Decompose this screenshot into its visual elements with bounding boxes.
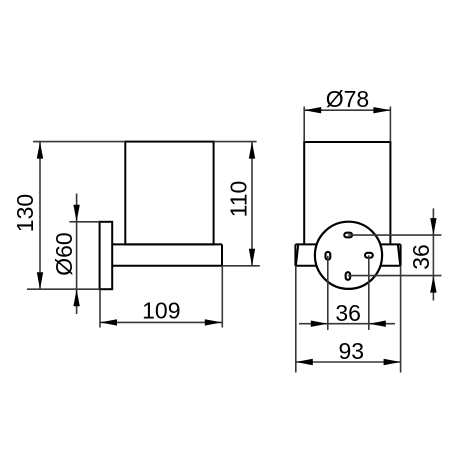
arrow 36 vertical bottom (up) — [430, 276, 436, 293]
arrow 36 vertical top (down) — [430, 218, 436, 235]
holder ring right outer edge — [400, 244, 402, 265]
holder arm top edge — [112, 243, 222, 245]
wall plate side view — [100, 222, 113, 289]
leader from left slot (36 horizontal left) — [327, 256, 329, 330]
holder ring left outer edge — [294, 244, 296, 265]
svg-text:36: 36 — [408, 244, 434, 270]
cup body front view top edge — [304, 141, 390, 143]
extension line 110 bottom — [222, 265, 260, 267]
extension line 93 left — [295, 266, 297, 373]
dimension line Ø60 — [76, 194, 78, 315]
arrow 36 horizontal right (points left) — [369, 321, 386, 327]
dimension line 110 — [251, 142, 253, 266]
arrow 93 left — [296, 359, 313, 365]
holder ring right chamfer — [398, 245, 400, 266]
mounting slot top — [344, 233, 352, 238]
arrow 109 left — [100, 319, 117, 325]
dimension line 36 horizontal — [299, 323, 395, 325]
leader from right slot (36 horizontal right) — [368, 255, 370, 330]
arrow Ø78 right — [373, 107, 390, 113]
svg-text:130: 130 — [12, 194, 38, 232]
arrow 110 bottom (down) — [249, 249, 255, 266]
arrow 36 horizontal left (points right) — [311, 321, 328, 327]
mounting slot bottom — [346, 272, 351, 280]
svg-text:Ø60: Ø60 — [51, 232, 77, 275]
mounting slot left — [326, 252, 331, 260]
extension line bottom of plate (130 and Ø60 dims) — [27, 288, 100, 290]
arrow Ø60 top (down onto plate top) — [73, 205, 79, 222]
dimension line 36 vertical — [432, 208, 434, 300]
leader from top slot (36 vertical top) — [348, 234, 441, 236]
arrow 130 bottom (down) — [37, 272, 43, 289]
extension line top of plate (Ø60 dim) — [69, 221, 99, 223]
extension line 93 right — [400, 266, 402, 373]
extension line Ø78 right — [389, 107, 391, 143]
wall plate front circle — [315, 222, 382, 289]
arrow 93 right — [384, 359, 401, 365]
arrow 130 top (up) — [37, 142, 43, 159]
arrow Ø60 bottom (up onto plate bottom) — [73, 289, 79, 306]
extension line top of cup (130 dim) — [33, 141, 125, 143]
svg-text:Ø78: Ø78 — [326, 86, 369, 112]
extension line 110 top — [214, 141, 257, 143]
dimension line 130 — [39, 142, 41, 290]
svg-text:36: 36 — [335, 300, 361, 326]
holder arm right edge — [221, 244, 223, 265]
extension line 109 left — [99, 289, 101, 327]
svg-text:93: 93 — [339, 338, 365, 364]
extension line Ø78 left — [303, 107, 305, 143]
svg-text:109: 109 — [142, 298, 180, 324]
arrow 109 right — [205, 319, 222, 325]
cup body side view — [125, 142, 213, 245]
holder ring left chamfer — [296, 245, 298, 266]
holder arm bottom edge — [112, 265, 222, 267]
arrow 110 top (up) — [249, 142, 255, 159]
holder ring bottom edge — [295, 265, 400, 267]
cup body front view left edge — [303, 141, 305, 244]
mounting slot right — [365, 253, 373, 258]
svg-text:110: 110 — [226, 181, 252, 218]
leader from bottom slot (36 vertical bottom) — [348, 275, 442, 277]
cup body front view right edge — [389, 141, 391, 244]
dimension line Ø78 — [304, 109, 390, 111]
holder ring top edge — [295, 243, 400, 245]
arrow Ø78 left — [304, 107, 321, 113]
dimension line 109 — [100, 321, 222, 323]
dimension line 93 — [296, 361, 401, 363]
extension line 109 right — [221, 266, 223, 328]
